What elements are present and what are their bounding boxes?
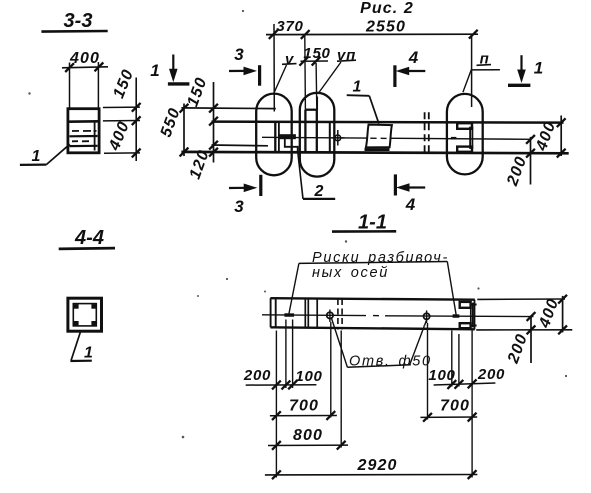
- axis mark riska (right): [453, 314, 460, 318]
- svg-text:3-3: 3-3: [64, 10, 93, 32]
- item 1 thick base: [365, 148, 390, 151]
- axis crosshair mark: [332, 130, 345, 146]
- dimension line right (3-3): [132, 78, 141, 162]
- centreline obround 2: [316, 97, 318, 111]
- dimension line 200 (1-1 right): [527, 312, 536, 363]
- section marker 3 (bottom): [229, 175, 261, 216]
- item 1 shim plate: [366, 125, 392, 148]
- centreline obround 1 / extension 370: [273, 24, 275, 112]
- svg-text:2920: 2920: [357, 457, 398, 474]
- beam left end face (1-1): [271, 298, 276, 327]
- section marker 1 (right): [508, 55, 543, 85]
- leader label 1 (shim): [347, 79, 379, 124]
- hole 1 ø50: [327, 310, 333, 323]
- svg-text:ных осей: ных осей: [312, 265, 389, 281]
- 3-3 inner plate lines: [70, 123, 98, 151]
- extension line 120-top: [212, 144, 269, 147]
- svg-text:100: 100: [295, 368, 322, 385]
- item label V: [274, 51, 296, 92]
- section title 4-4: [59, 227, 115, 249]
- embedded bracket in obround 3: [451, 123, 473, 152]
- svg-text:2550: 2550: [365, 19, 406, 36]
- dimension line 150 (small, top): [299, 36, 328, 110]
- svg-text:200: 200: [243, 367, 271, 384]
- svg-text:700: 700: [289, 398, 319, 415]
- svg-text:3: 3: [234, 45, 244, 64]
- axis mark riska (left): [284, 313, 294, 317]
- transverse double line: [305, 299, 317, 328]
- otv shelf line: [347, 365, 410, 368]
- svg-text:3: 3: [234, 197, 244, 216]
- beam right end face (1-1): [474, 300, 476, 330]
- svg-text:100: 100: [428, 367, 455, 384]
- dimension line 2920: [265, 470, 478, 479]
- centreline obround 3 / extension 2550: [471, 36, 473, 107]
- otv leader left: [332, 319, 348, 368]
- embedded bracket right end (1-1): [460, 302, 477, 328]
- rebar corner dots (4-4): [74, 304, 96, 325]
- svg-text:1: 1: [353, 79, 362, 96]
- svg-text:370: 370: [276, 18, 303, 35]
- svg-text:1: 1: [534, 59, 543, 78]
- dimension line 400 (1-1 right): [558, 295, 567, 334]
- leader label 2 (joint): [298, 152, 335, 200]
- beam top edge (1-1): [270, 298, 474, 300]
- svg-text:700: 700: [440, 398, 470, 415]
- hidden dashed pair (1-1): [338, 299, 342, 330]
- section marker 1 (left): [150, 55, 189, 84]
- section title 1-1: [332, 212, 396, 234]
- notch step: [285, 138, 298, 152]
- extension verticals below beam (1-1): [276, 320, 472, 478]
- svg-text:4: 4: [408, 48, 419, 67]
- svg-text:1: 1: [150, 61, 159, 80]
- section 4-4 outer square: [68, 298, 102, 331]
- svg-text:1: 1: [32, 148, 41, 165]
- dimension line 150/120: [209, 82, 218, 163]
- scan specks: [28, 10, 567, 438]
- dimension line 700 (right): [420, 413, 477, 422]
- note leader right: [447, 262, 456, 316]
- section 4-4 inner square: [73, 304, 96, 326]
- svg-text:Рис. 2: Рис. 2: [360, 0, 414, 17]
- section marker 4 (top): [395, 48, 425, 87]
- weld bar (solid): [279, 134, 296, 139]
- otv leader right: [410, 319, 427, 365]
- 3-3 inner band line: [68, 120, 99, 123]
- extension lines (3-3 top): [69, 63, 71, 109]
- item label П: [463, 51, 500, 93]
- svg-text:150: 150: [303, 45, 330, 62]
- svg-text:800: 800: [293, 427, 323, 444]
- beam bottom edge (1-1): [270, 327, 474, 329]
- section marker 4 (bottom): [395, 174, 425, 214]
- beam axis line (1-1): [262, 315, 534, 317]
- dimension line 200 (elevation right): [526, 135, 535, 185]
- svg-text:1: 1: [84, 345, 93, 362]
- joint plate rectangle: [275, 123, 330, 152]
- section 3-3 column outline: [68, 109, 99, 153]
- section marker 3 (top): [229, 45, 260, 86]
- dimension line 800: [268, 441, 348, 450]
- svg-text:2: 2: [314, 183, 324, 200]
- dimension row 200/100 (left): [246, 381, 317, 390]
- beam bottom edge: [181, 152, 568, 153]
- item label VII: [318, 47, 356, 94]
- svg-text:200: 200: [477, 366, 505, 383]
- vertical plate 150 wide: [305, 110, 316, 152]
- leader label 1 (4-4): [70, 331, 93, 361]
- dimension line 550: [180, 104, 189, 157]
- joint outline obround 2: [300, 93, 335, 177]
- dimension line 400 (elevation right): [557, 116, 566, 158]
- right extension lines (1-1): [476, 299, 572, 330]
- beam axis line: [262, 137, 531, 139]
- hole 2 ø50: [424, 310, 430, 323]
- top dimension line 370/2550: [266, 30, 478, 39]
- dimension row 100/200 (right): [434, 380, 496, 389]
- note shelf line: [299, 262, 447, 264]
- section title 3-3: [41, 10, 107, 32]
- beam top edge: [212, 122, 564, 123]
- leader label 1 (3-3): [20, 144, 70, 165]
- dimension line 400 (3-3): [62, 63, 108, 73]
- item 1 inner axis segments: [370, 137, 386, 139]
- extension lines right (3-3): [103, 107, 140, 153]
- joint outline obround 1: [256, 94, 292, 176]
- dimension line 700 (left): [270, 411, 337, 420]
- extension line 550-top: [181, 107, 275, 110]
- joint outline obround 3: [447, 94, 483, 174]
- svg-text:4-4: 4-4: [74, 227, 104, 249]
- svg-text:4: 4: [405, 195, 416, 214]
- note leader left: [289, 263, 299, 314]
- hidden dashed pair: [425, 112, 429, 156]
